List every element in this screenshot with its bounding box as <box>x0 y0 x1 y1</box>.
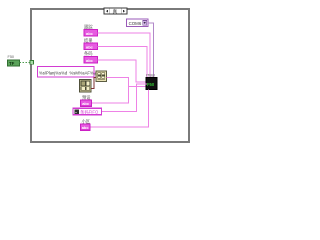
svg-text:F50: F50 <box>8 55 15 59</box>
svg-text:abc: abc <box>86 44 94 49</box>
svg-text:%s\Planj%s%d: %s\Planj%s%d <box>39 71 68 76</box>
svg-text:abc: abc <box>86 31 94 36</box>
svg-text:abc: abc <box>82 125 90 130</box>
svg-text:TF: TF <box>9 61 15 66</box>
svg-text:ITBsl: ITBsl <box>146 74 155 78</box>
svg-text:abc: abc <box>86 58 94 63</box>
svg-text:条码FIFO: 条码FIFO <box>80 109 99 116</box>
svg-text:F50: F50 <box>147 82 155 87</box>
svg-text:COM6: COM6 <box>129 21 142 26</box>
svg-text:abc: abc <box>82 101 90 106</box>
svg-text:%sM%sAF%s: %sM%sAF%s <box>70 71 96 76</box>
svg-text:真: 真 <box>113 8 118 15</box>
